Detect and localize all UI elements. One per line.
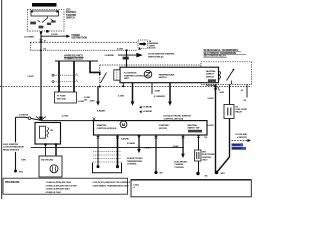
svg-text:5 US GP BY (VIN) DIGIT FOLLOW: 5 US GP BY (VIN) DIGIT FOLLOWING P bbox=[93, 182, 131, 184]
svg-text:W5/1: W5/1 bbox=[221, 173, 226, 175]
svg-text:6 AUTOMATIC TRANSMISSION ONLY: 6 AUTOMATIC TRANSMISSION ONLY bbox=[93, 184, 130, 187]
svg-text:COLOR AND: COLOR AND bbox=[235, 133, 247, 136]
svg-text:CONTROL: CONTROL bbox=[175, 167, 186, 169]
svg-text:SWITCH RELAY: SWITCH RELAY bbox=[148, 56, 164, 59]
svg-text:W6: W6 bbox=[160, 173, 164, 175]
svg-text:2.5 RD/YE: 2.5 RD/YE bbox=[19, 114, 29, 116]
svg-text:STARTER: STARTER bbox=[159, 124, 169, 127]
svg-text:RELAY MODULE: RELAY MODULE bbox=[3, 148, 20, 151]
svg-text:A RD/BK: A RD/BK bbox=[97, 110, 106, 113]
svg-text:NEUTRAL: NEUTRAL bbox=[188, 124, 198, 127]
svg-text:0.5 BK/RD: 0.5 BK/RD bbox=[105, 55, 115, 57]
svg-text:A2: A2 bbox=[244, 99, 247, 102]
svg-text:0.5 RD: 0.5 RD bbox=[62, 115, 69, 117]
svg-text:SAFETY: SAFETY bbox=[206, 73, 215, 76]
svg-text:0.5 BK: 0.5 BK bbox=[117, 49, 124, 51]
svg-text:UNIT: UNIT bbox=[124, 78, 130, 80]
svg-text:1: 1 bbox=[76, 74, 77, 76]
svg-text:2 1988 2.6 (RF) 49S USE 2.6 F: 2 1988 2.6 (RF) 49S USE 2.6 FED bbox=[46, 184, 78, 187]
svg-text:TEMPERATURE: TEMPERATURE bbox=[159, 73, 175, 76]
svg-text:CONTROL MODULE: CONTROL MODULE bbox=[97, 128, 117, 130]
svg-text:15 BK: 15 BK bbox=[155, 91, 161, 93]
svg-text:S16/1 STARTER: S16/1 STARTER bbox=[3, 143, 19, 146]
svg-text:ELECTRONIC: ELECTRONIC bbox=[175, 161, 188, 163]
svg-text:0.5 RD: 0.5 RD bbox=[208, 98, 215, 100]
svg-text:1.5 RD: 1.5 RD bbox=[27, 76, 34, 78]
svg-text:MOTOR: MOTOR bbox=[159, 128, 167, 130]
svg-text:RELAY: RELAY bbox=[236, 111, 243, 114]
svg-text:K1/2 ELECTRONIC IGNITION: K1/2 ELECTRONIC IGNITION bbox=[164, 116, 192, 118]
svg-text:BREAKER: BREAKER bbox=[232, 147, 242, 150]
svg-text:ONLY: ONLY bbox=[202, 159, 208, 161]
svg-text:CHASSIS: CHASSIS bbox=[175, 163, 184, 166]
svg-text:A BK/RD: A BK/RD bbox=[121, 138, 129, 141]
svg-text:1 BR: 1 BR bbox=[21, 160, 26, 162]
svg-text:GN: GN bbox=[84, 99, 88, 101]
svg-text:K1 IGNITION: K1 IGNITION bbox=[124, 73, 137, 75]
svg-text:STARTER: STARTER bbox=[97, 124, 107, 127]
svg-text:CONTROL: CONTROL bbox=[127, 164, 138, 166]
svg-text:W10: W10 bbox=[19, 172, 24, 174]
svg-text:0.5 BK: 0.5 BK bbox=[145, 148, 152, 150]
svg-text:F1 FUSE: F1 FUSE bbox=[57, 95, 66, 97]
svg-text:A RD: A RD bbox=[220, 91, 225, 94]
svg-text:SWITCH: SWITCH bbox=[206, 76, 214, 78]
svg-text:STARTER: STARTER bbox=[66, 14, 77, 17]
svg-text:0.8 BK: 0.8 BK bbox=[173, 146, 180, 148]
svg-text:ANTI-THEFT AL: ANTI-THEFT AL bbox=[34, 4, 55, 7]
svg-text:SWITCH: SWITCH bbox=[159, 77, 168, 79]
svg-text:POWER: POWER bbox=[72, 35, 81, 37]
svg-text:3 1988 3.0 (RF) 49S ONLY: 3 1988 3.0 (RF) 49S ONLY bbox=[46, 188, 71, 191]
svg-text:4 1988 2.6 ONLY: 4 1988 2.6 ONLY bbox=[46, 191, 62, 194]
svg-text:TERMINAL BLOCK: TERMINAL BLOCK bbox=[64, 58, 84, 61]
svg-text:2: 2 bbox=[76, 80, 77, 82]
svg-text:K. SENSOR: K. SENSOR bbox=[154, 96, 165, 98]
svg-text:LH(C): LH(C) bbox=[134, 184, 140, 186]
svg-text:0.6 RD: 0.6 RD bbox=[208, 125, 215, 127]
svg-text:DISTRIBUTION: DISTRIBUTION bbox=[72, 38, 88, 40]
svg-text:SAFETY SW: SAFETY SW bbox=[188, 127, 201, 130]
svg-text:X24/1: X24/1 bbox=[90, 100, 96, 103]
svg-text:CIRCUIT: CIRCUIT bbox=[232, 145, 240, 147]
svg-text:PROVISIONS:: PROVISIONS: bbox=[5, 181, 20, 184]
svg-text:0.5 BK/RD: 0.5 BK/RD bbox=[143, 107, 153, 109]
svg-text:W5: W5 bbox=[205, 176, 209, 178]
svg-text:# DENOTE: # DENOTE bbox=[237, 137, 247, 139]
svg-text:30: 30 bbox=[241, 90, 244, 92]
svg-text:W/ ELECTRONIC: W/ ELECTRONIC bbox=[127, 158, 143, 160]
svg-text:X4 VIA IGNITION STARTER: X4 VIA IGNITION STARTER bbox=[148, 52, 175, 55]
svg-text:W2 GROUND: W2 GROUND bbox=[41, 159, 54, 161]
svg-text:1 1988 2.6 (FED) 49S ONLY: 1 1988 2.6 (FED) 49S ONLY bbox=[46, 181, 72, 184]
svg-text:X4: X4 bbox=[43, 47, 46, 50]
svg-text:STARTER CONTROL: STARTER CONTROL bbox=[124, 74, 145, 77]
svg-text:0.5 BK/RD: 0.5 BK/RD bbox=[143, 111, 153, 113]
svg-text:2.5 RD: 2.5 RD bbox=[51, 34, 58, 36]
svg-text:TEMPERATURE: TEMPERATURE bbox=[127, 160, 142, 163]
svg-text:K2: K2 bbox=[205, 137, 208, 139]
svg-text:2.5 RD/BK: 2.5 RD/BK bbox=[24, 36, 34, 38]
svg-text:SWITCH: SWITCH bbox=[66, 17, 75, 19]
svg-text:0.5 BK/R: 0.5 BK/R bbox=[127, 143, 135, 145]
svg-text:0.3 BK: 0.3 BK bbox=[118, 96, 125, 98]
svg-text:LOCKOUT/SELENOID: LOCKOUT/SELENOID bbox=[3, 147, 24, 149]
svg-text:NEUTRAL: NEUTRAL bbox=[206, 70, 216, 73]
svg-text:BLOCK: BLOCK bbox=[149, 48, 157, 50]
svg-text:BOX 30A: BOX 30A bbox=[57, 98, 66, 101]
